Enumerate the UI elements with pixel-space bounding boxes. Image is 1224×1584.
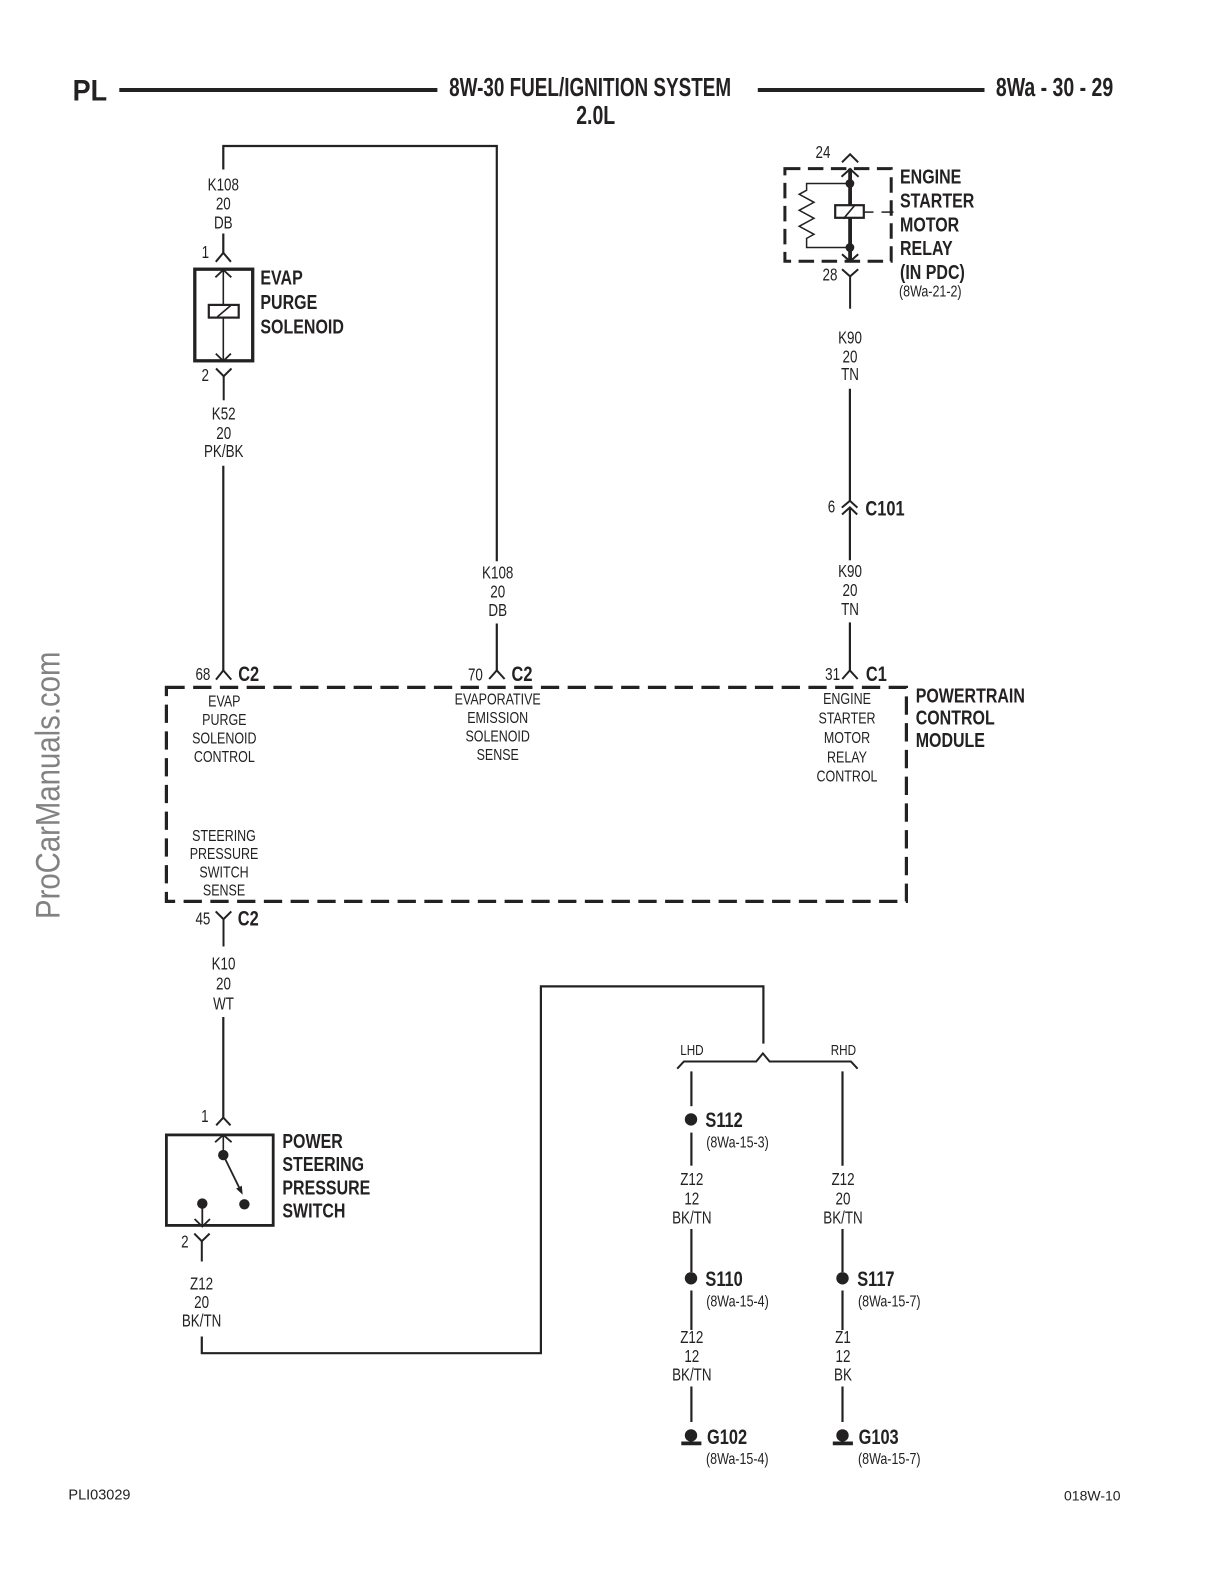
svg-text:K108: K108	[208, 176, 239, 195]
wire to G102	[690, 1387, 692, 1423]
svg-text:S112: S112	[705, 1108, 742, 1131]
svg-text:STEERING: STEERING	[282, 1152, 364, 1175]
wire below S117	[841, 1291, 843, 1331]
label (8Wa-15-7) G103	[858, 1451, 921, 1469]
svg-text:PL: PL	[73, 74, 107, 108]
svg-text:Z12: Z12	[680, 1170, 703, 1189]
label POWERTRAIN CONTROL MODULE	[916, 683, 1025, 751]
splice S110	[685, 1272, 697, 1284]
svg-text:DB: DB	[488, 602, 507, 621]
connector pin 70 fork	[489, 670, 504, 679]
svg-text:12: 12	[684, 1190, 699, 1209]
svg-text:70: 70	[468, 666, 483, 685]
pin 28 label	[823, 266, 838, 285]
svg-text:K10: K10	[212, 955, 236, 974]
svg-text:CONTROL: CONTROL	[916, 705, 995, 728]
PSPS switch arm with arrowhead	[223, 1155, 242, 1195]
pin 6 label	[828, 498, 835, 517]
wire label Z1 12 BK	[834, 1329, 853, 1385]
wire label K90 20 TN (lower)	[838, 562, 862, 619]
connector pin 28 fork	[842, 269, 858, 309]
svg-text:C2: C2	[238, 907, 259, 930]
wire LHD branch upper	[690, 1071, 692, 1106]
wire below S110	[690, 1291, 692, 1331]
wire label K108 20 DB (left)	[208, 176, 239, 233]
svg-text:C2: C2	[512, 662, 533, 685]
header title	[449, 72, 731, 129]
svg-text:BK/TN: BK/TN	[823, 1209, 862, 1228]
pin 1 label (PSPS)	[201, 1108, 208, 1127]
wire RHD branch upper	[841, 1071, 843, 1165]
svg-text:BK: BK	[834, 1366, 853, 1385]
ground G102 symbol	[681, 1429, 701, 1443]
svg-text:G103: G103	[859, 1425, 899, 1448]
connector C2 (pin 68)	[238, 662, 259, 685]
svg-text:CONTROL: CONTROL	[194, 749, 255, 767]
solenoid coil symbol	[209, 305, 239, 318]
svg-text:STARTER: STARTER	[818, 710, 875, 728]
svg-text:018W-10: 018W-10	[1064, 1488, 1121, 1504]
label POWER STEERING PRESSURE SWITCH	[282, 1129, 370, 1222]
svg-text:RHD: RHD	[831, 1042, 857, 1059]
svg-text:BK/TN: BK/TN	[182, 1312, 221, 1331]
watermark ProCarManuals.com	[28, 652, 67, 919]
svg-text:SENSE: SENSE	[203, 882, 245, 900]
label (8Wa-15-4) G102	[706, 1451, 769, 1469]
connector C2 (pin 70)	[512, 662, 533, 685]
wire label Z12 12 BK/TN (upper)	[672, 1170, 711, 1228]
junction dot top	[846, 179, 855, 188]
page header: PL	[73, 74, 107, 108]
svg-text:20: 20	[490, 583, 505, 602]
svg-text:ENGINE: ENGINE	[900, 165, 961, 188]
connector C101 name	[865, 496, 904, 519]
wire K90 to C101	[849, 389, 851, 501]
PCM pin label: EVAPORATIVE EMISSION SOLENOID SENSE	[455, 691, 541, 764]
ground G103 symbol	[833, 1429, 853, 1443]
solenoid internal flow line with arrows	[215, 270, 231, 361]
svg-text:EVAPORATIVE: EVAPORATIVE	[455, 691, 541, 709]
wire label K10 20 WT	[212, 955, 236, 1014]
svg-text:C2: C2	[238, 662, 259, 685]
wire label K108 20 DB (middle)	[482, 564, 513, 621]
PCM pin label: STEERING PRESSURE SWITCH SENSE	[190, 828, 259, 900]
PSPS contact dot (arm target)	[239, 1199, 249, 1209]
wire K108 stub to pin 70	[496, 624, 498, 671]
relay coil symbol	[835, 205, 864, 219]
svg-text:BK/TN: BK/TN	[672, 1366, 711, 1385]
wire below S112	[690, 1133, 692, 1166]
svg-text:EMISSION: EMISSION	[467, 709, 528, 727]
svg-text:Z1: Z1	[835, 1329, 851, 1348]
svg-text:POWERTRAIN: POWERTRAIN	[916, 683, 1025, 706]
PCM pin label: ENGINE STARTER MOTOR RELAY CONTROL	[817, 691, 878, 786]
svg-text:C1: C1	[866, 662, 887, 685]
engine starter motor relay dashed box	[785, 169, 891, 262]
svg-text:K90: K90	[838, 329, 862, 348]
wire K90 stub to pin 31	[849, 622, 851, 670]
svg-text:20: 20	[216, 195, 231, 214]
svg-text:PURGE: PURGE	[260, 290, 317, 313]
PSPS output arrow	[195, 1204, 210, 1227]
svg-text:(8Wa-15-7): (8Wa-15-7)	[858, 1451, 921, 1469]
svg-text:20: 20	[216, 424, 231, 443]
svg-text:STARTER: STARTER	[900, 188, 974, 211]
power steering pressure switch box	[166, 1135, 273, 1226]
svg-text:DB: DB	[214, 214, 233, 233]
svg-text:20: 20	[836, 1190, 851, 1209]
svg-text:MODULE: MODULE	[916, 728, 985, 751]
svg-text:20: 20	[194, 1294, 209, 1313]
label (8Wa-21-2)	[899, 283, 962, 301]
svg-text:PRESSURE: PRESSURE	[190, 846, 259, 864]
connector C1 (pin 31)	[866, 662, 887, 685]
pin 2 label	[201, 367, 208, 386]
svg-text:SENSE: SENSE	[477, 746, 519, 764]
svg-text:PRESSURE: PRESSURE	[282, 1175, 370, 1198]
pin 70 label	[468, 666, 483, 685]
svg-text:2.0L: 2.0L	[576, 100, 615, 129]
svg-text:TN: TN	[841, 366, 859, 385]
connector pin 45 fork	[216, 911, 232, 946]
svg-text:(8Wa-15-4): (8Wa-15-4)	[706, 1293, 769, 1311]
pin 31 label	[825, 666, 840, 685]
connector pin 2 fork	[216, 369, 232, 401]
wire label Z12 20 BK/TN (RHD)	[823, 1170, 862, 1228]
svg-text:SOLENOID: SOLENOID	[192, 730, 256, 748]
connector pin 24 chevron	[842, 154, 858, 162]
splice S117	[836, 1272, 848, 1284]
svg-text:12: 12	[836, 1347, 851, 1366]
wire to S110	[690, 1229, 692, 1272]
svg-text:SWITCH: SWITCH	[282, 1198, 345, 1221]
svg-text:(IN PDC): (IN PDC)	[900, 260, 965, 283]
wire label Z12 20 BK/TN	[182, 1275, 221, 1331]
svg-text:K52: K52	[212, 405, 236, 424]
connector pin 68 fork	[216, 670, 231, 679]
svg-text:MOTOR: MOTOR	[824, 730, 870, 748]
label EVAP PURGE SOLENOID	[260, 265, 343, 338]
wire K108: EVAP pin1 stub, top run to PCM pin70 drop	[223, 146, 497, 561]
svg-text:RELAY: RELAY	[900, 236, 953, 259]
svg-text:1: 1	[202, 244, 209, 263]
svg-text:6: 6	[828, 498, 835, 517]
svg-text:C101: C101	[865, 496, 904, 519]
wire K52 to PCM pin 68	[222, 466, 224, 671]
wire K90 below C101	[849, 508, 851, 560]
svg-text:(8Wa-15-7): (8Wa-15-7)	[858, 1293, 921, 1311]
pin 68 label	[195, 666, 210, 685]
svg-text:2: 2	[181, 1233, 188, 1252]
label S112	[705, 1108, 742, 1131]
svg-text:SWITCH: SWITCH	[199, 864, 248, 882]
wire to S117	[841, 1229, 843, 1272]
relay suppression resistor	[799, 184, 850, 248]
svg-text:K90: K90	[838, 562, 862, 581]
footer drawing number 018W-10	[1064, 1488, 1121, 1504]
svg-text:28: 28	[823, 266, 838, 285]
powertrain control module dashed box	[166, 687, 906, 901]
svg-text:S110: S110	[705, 1267, 742, 1290]
svg-text:S117: S117	[857, 1267, 894, 1290]
splice S112	[685, 1113, 697, 1125]
svg-text:EVAP: EVAP	[208, 693, 240, 711]
svg-text:SOLENOID: SOLENOID	[465, 728, 529, 746]
label S110	[705, 1267, 742, 1290]
svg-text:(8Wa-15-4): (8Wa-15-4)	[706, 1451, 769, 1469]
svg-text:WT: WT	[213, 995, 234, 1014]
wire K108 stub to pin 1	[222, 234, 224, 253]
svg-text:8Wa - 30 - 29: 8Wa - 30 - 29	[996, 72, 1113, 101]
svg-text:PLI03029: PLI03029	[68, 1488, 130, 1504]
svg-text:Z12: Z12	[190, 1275, 213, 1294]
connector C2 (pin 45)	[238, 907, 259, 930]
svg-text:68: 68	[195, 666, 210, 685]
PSPS contact dot (pin 1)	[218, 1150, 228, 1160]
connector pin 31 fork	[842, 670, 857, 679]
connector pin 1 fork	[216, 253, 231, 262]
svg-text:PURGE: PURGE	[202, 712, 246, 730]
label (8Wa-15-7)	[858, 1293, 921, 1311]
svg-text:ENGINE: ENGINE	[823, 691, 871, 709]
svg-text:PK/BK: PK/BK	[204, 442, 244, 461]
header page number	[996, 72, 1113, 101]
connector C101 double chevron	[842, 501, 858, 515]
header rule right	[758, 88, 985, 92]
svg-text:RELAY: RELAY	[827, 749, 867, 767]
label S117	[857, 1267, 894, 1290]
svg-text:ProCarManuals.com: ProCarManuals.com	[28, 652, 67, 919]
pin 24 label	[816, 144, 831, 163]
svg-text:Z12: Z12	[680, 1329, 703, 1348]
header rule left	[119, 88, 437, 92]
svg-text:G102: G102	[707, 1425, 747, 1448]
pin 2 label (PSPS)	[181, 1233, 188, 1252]
footer sheet code PLI03029	[68, 1488, 130, 1504]
svg-text:45: 45	[195, 910, 210, 929]
LHD/RHD brace	[677, 1053, 857, 1068]
relay coil output stub	[864, 211, 894, 213]
svg-text:LHD: LHD	[680, 1042, 704, 1059]
label G103	[859, 1425, 899, 1448]
relay vertical conductor	[848, 169, 852, 262]
svg-text:EVAP: EVAP	[260, 265, 302, 288]
wire Z12 ground loop	[202, 986, 764, 1353]
svg-text:CONTROL: CONTROL	[817, 768, 878, 786]
EVAP purge solenoid box	[195, 269, 253, 361]
pin 1 label (EVAP purge solenoid)	[202, 244, 209, 263]
wire to G103	[841, 1387, 843, 1423]
svg-text:20: 20	[843, 582, 858, 601]
svg-text:SOLENOID: SOLENOID	[260, 315, 343, 338]
label (8Wa-15-3)	[706, 1134, 769, 1152]
svg-text:Z12: Z12	[831, 1170, 854, 1189]
PSPS contact dot (pin 2)	[197, 1198, 207, 1208]
svg-text:(8Wa-15-3): (8Wa-15-3)	[706, 1134, 769, 1152]
svg-text:8W-30 FUEL/IGNITION SYSTEM: 8W-30 FUEL/IGNITION SYSTEM	[449, 72, 731, 102]
wire label Z12 12 BK/TN (lower)	[672, 1329, 711, 1385]
arrow into relay (pin 24 side)	[842, 169, 859, 177]
PSPS input arrow	[215, 1135, 232, 1155]
connector pin 2 fork (PSPS)	[194, 1234, 209, 1262]
svg-text:1: 1	[201, 1108, 208, 1127]
svg-text:12: 12	[684, 1347, 699, 1366]
svg-text:TN: TN	[841, 601, 859, 620]
arrow out of relay (pin 28 side)	[842, 254, 858, 261]
junction dot bottom	[846, 243, 855, 252]
pin 45 label	[195, 910, 210, 929]
label RHD	[831, 1042, 857, 1059]
svg-text:20: 20	[843, 348, 858, 367]
svg-text:24: 24	[816, 144, 831, 163]
label (8Wa-15-4)	[706, 1293, 769, 1311]
svg-text:2: 2	[201, 367, 208, 386]
svg-text:POWER: POWER	[282, 1129, 342, 1152]
svg-text:20: 20	[216, 975, 231, 994]
connector pin 1 fork (PSPS)	[216, 1118, 230, 1126]
label ENGINE STARTER MOTOR RELAY (IN PDC)	[900, 165, 974, 284]
label G102	[707, 1425, 747, 1448]
wire K10 to power steering pressure switch	[222, 1017, 224, 1118]
svg-text:STEERING: STEERING	[192, 828, 256, 846]
svg-text:(8Wa-21-2): (8Wa-21-2)	[899, 283, 962, 301]
svg-text:K108: K108	[482, 564, 513, 583]
label LHD	[680, 1042, 704, 1059]
svg-text:31: 31	[825, 666, 840, 685]
svg-text:BK/TN: BK/TN	[672, 1209, 711, 1228]
svg-text:MOTOR: MOTOR	[900, 212, 959, 235]
PCM pin label: EVAP PURGE SOLENOID CONTROL	[192, 693, 256, 766]
wire label K52 20 PK/BK	[204, 405, 244, 461]
wire label K90 20 TN (upper)	[838, 329, 862, 384]
